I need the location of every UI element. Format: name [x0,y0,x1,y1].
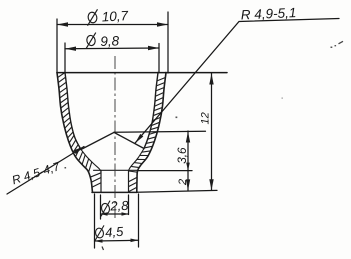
baseline extension [137,190,217,192]
inner wall right [144,73,158,149]
dim line 3.6 and 2 [187,131,189,191]
stray tick bottom [102,247,104,251]
leader R4,5-4,7 [7,147,84,195]
svg-text:12: 12 [200,112,212,124]
scan specks [65,45,337,169]
inner surface below cone left [81,150,101,172]
svg-text:2,8: 2,8 [109,198,129,214]
label dia 9,8 [86,33,96,49]
stem-top level extension [138,170,192,172]
cone inner bottom [81,132,144,149]
leader R4,9-5,1 [135,19,339,144]
label dia 4,5 [95,225,105,240]
hole wall left [100,170,102,192]
centerline [114,56,116,218]
svg-text:4,5: 4,5 [105,224,125,240]
dim line dia 10.7 [57,12,168,73]
svg-text:R 4,9-5,1: R 4,9-5,1 [240,5,296,22]
rim line / extension [57,72,227,74]
dim line dia 9.8 [65,43,159,72]
svg-text:3,6: 3,6 [175,147,189,164]
dim dia 4.5 [95,194,139,248]
label dia 2,8 [100,201,110,217]
dim line 12 [211,73,213,190]
outer wall left [57,73,93,193]
label dia 10,7 [87,9,98,25]
hole wall right [128,170,130,192]
stem top line [94,169,138,171]
svg-text:9,8: 9,8 [100,33,120,49]
inner surface below cone right [129,149,145,172]
stem bottom line [92,191,137,193]
hatching left wall [58,73,101,188]
outer wall right [137,73,166,193]
hatching right wall [129,78,166,192]
dim dia 2.8 [101,195,129,219]
inner wall left [65,73,81,150]
apex level extension [114,131,206,132]
svg-text:10,7: 10,7 [101,8,129,24]
svg-text:2: 2 [177,179,189,186]
